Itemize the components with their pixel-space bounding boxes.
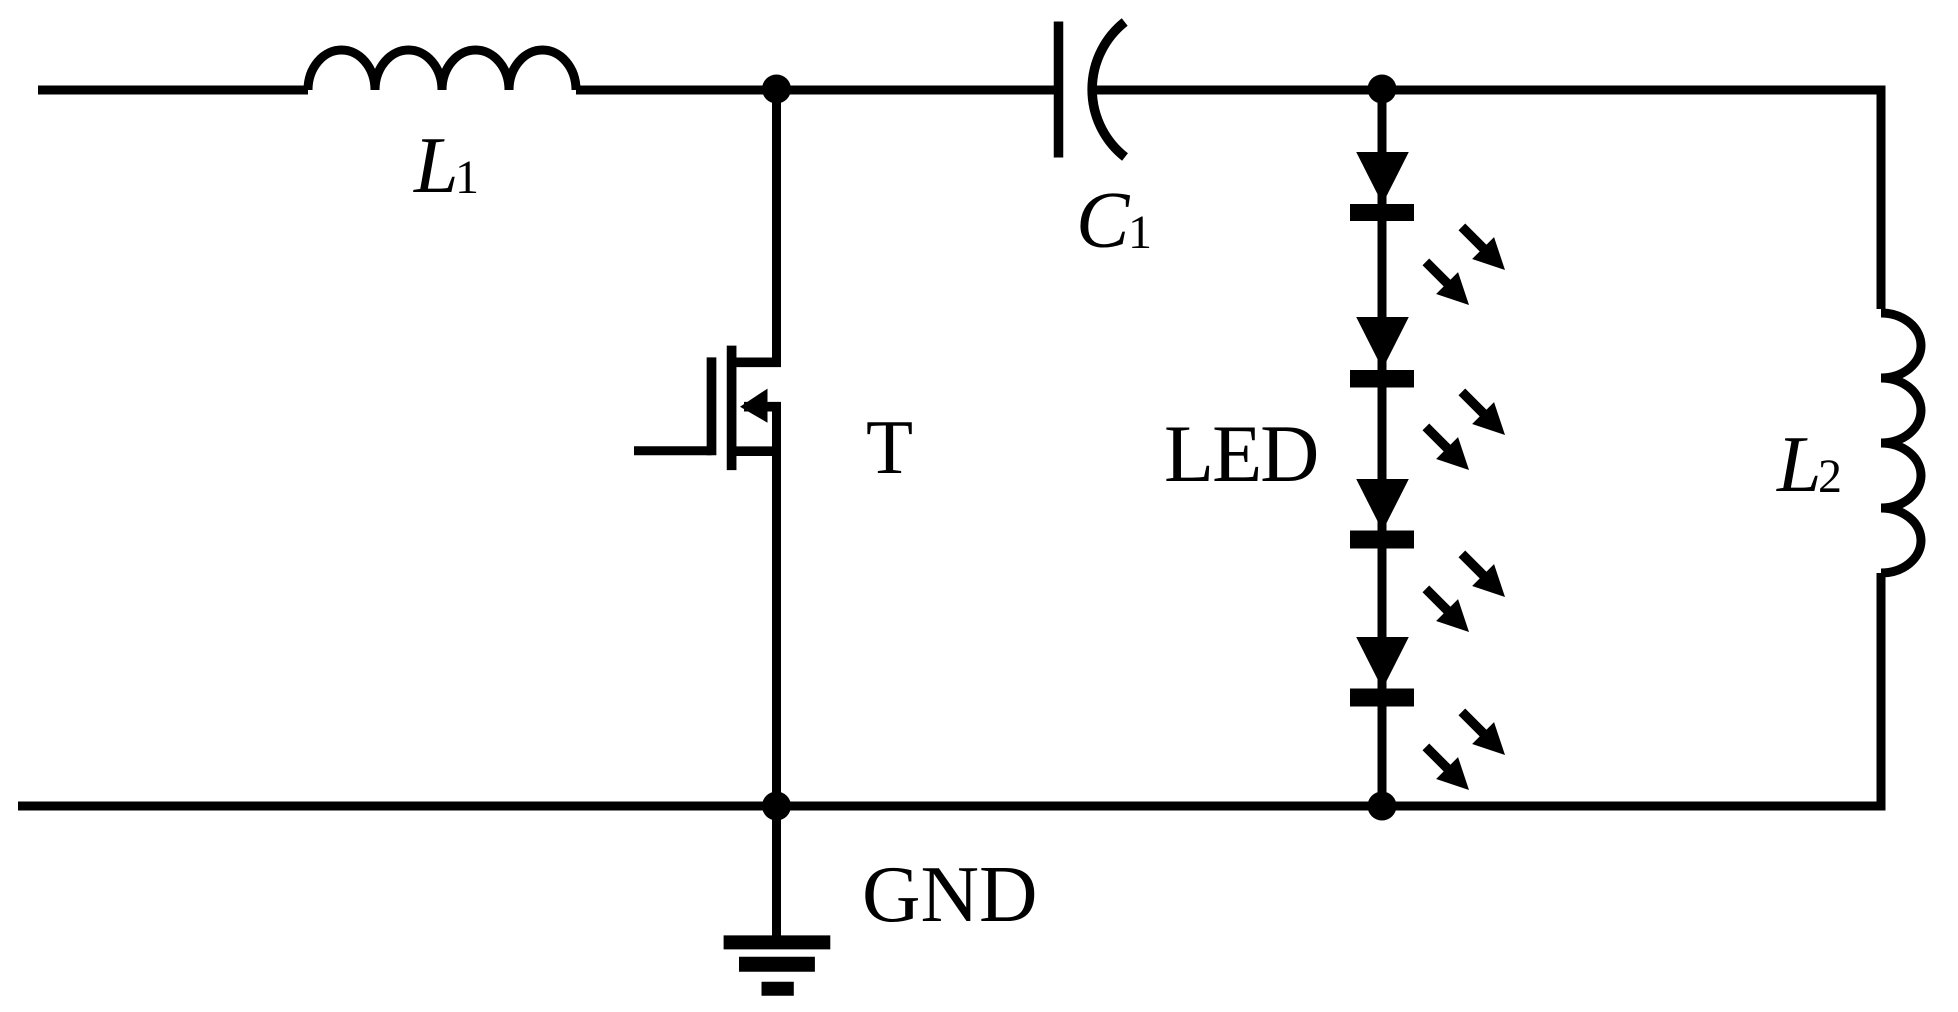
svg-text:L: L [1776, 421, 1822, 509]
transistor T channel bar [727, 346, 737, 471]
capacitor C1 left plate [1054, 22, 1064, 158]
wire MOSFET drain (vertical from top junction) [772, 89, 781, 367]
capacitor C1 right curved plate [1092, 22, 1125, 157]
node junction top (LED anode) [1368, 75, 1397, 104]
svg-text:1: 1 [1128, 206, 1152, 259]
LED D1 cathode bar [1350, 204, 1414, 221]
svg-text:GND: GND [862, 849, 1038, 939]
wire C1 to top-right corner [1092, 90, 1881, 309]
svg-text:1: 1 [455, 151, 479, 204]
wire gate lead [634, 446, 712, 455]
wire L2 to bottom-right corner and bottom wire [18, 573, 1881, 806]
wire body lead [744, 402, 781, 412]
LED D2 light arrow upper [1451, 381, 1516, 446]
LED D1 triangle [1356, 152, 1409, 204]
inductor L2 [1881, 313, 1921, 573]
LED D2 cathode bar [1350, 370, 1414, 388]
LED D3 light arrow lower [1415, 578, 1480, 643]
LED D3 triangle [1356, 479, 1409, 531]
LED D4 cathode bar [1350, 689, 1414, 707]
svg-text:2: 2 [1818, 450, 1842, 503]
LED D4 triangle [1356, 637, 1409, 689]
ground bar 1 [724, 935, 831, 949]
wire L1 to C1 [576, 86, 1054, 95]
ground bar 3 [762, 982, 794, 996]
svg-text:LED: LED [1164, 408, 1317, 499]
node junction bottom (LED cathode) [1368, 792, 1397, 821]
LED D2 light arrow lower [1415, 416, 1480, 481]
LED D4 light arrow lower [1415, 736, 1480, 801]
LED D2 triangle [1356, 317, 1409, 369]
LED D3 cathode bar [1350, 531, 1414, 549]
wire GND stem [772, 806, 781, 942]
LED D4 light arrow upper [1451, 701, 1516, 766]
transistor T body arrow [740, 389, 768, 423]
LED D1 light arrow lower [1415, 251, 1480, 316]
wire MOSFET drain lead [732, 357, 781, 367]
wire source lead [732, 446, 777, 456]
LED D3 light arrow upper [1451, 543, 1516, 608]
transistor T gate bar [707, 357, 717, 455]
ground bar 2 [739, 957, 815, 972]
LED D1 light arrow upper [1451, 216, 1516, 281]
svg-text:C: C [1076, 177, 1131, 265]
node junction bottom (T source / GND) [762, 792, 791, 821]
svg-text:T: T [866, 404, 913, 490]
wire MOSFET source (vertical to bottom junction) [772, 402, 781, 806]
node junction top (T drain) [762, 75, 791, 104]
wire top-left [38, 86, 308, 95]
inductor L1 [308, 50, 576, 90]
svg-text:L: L [413, 122, 459, 210]
wire LED string vertical [1378, 89, 1387, 806]
